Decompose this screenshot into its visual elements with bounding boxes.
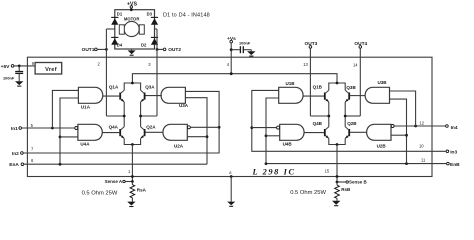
svg-text:15: 15 (325, 168, 330, 173)
wire OUT1 node horizontal (106, 115, 124, 117)
label pin 7 (31, 146, 34, 151)
junction EnB to U4B (265, 134, 268, 137)
svg-text:Q3A: Q3A (145, 85, 155, 90)
terminal In1 (19, 127, 22, 130)
wire OUT3 node horizontal (310, 115, 328, 117)
wire EnA to U2A input (187, 136, 207, 138)
wire +VS to bridge top (130, 8, 132, 10)
wire Sense B tap (337, 181, 346, 183)
label pin 14 (353, 62, 358, 67)
gate U2A bubble (163, 124, 190, 140)
terminal +Vs (230, 40, 233, 43)
note D1 to D4 - IN4148 (163, 12, 210, 18)
junction pin4 on rail (230, 72, 233, 75)
junction OUT4 node (344, 115, 347, 118)
wire In3 riser to U4B bubble (252, 127, 277, 129)
junction In1 riser (51, 127, 54, 130)
svg-text:Q1A: Q1A (109, 85, 119, 90)
label EnA (9, 162, 19, 168)
wire U2B output to Q2B base (350, 131, 367, 133)
junction EnA riser left (59, 163, 62, 166)
junction In3 riser U4B (250, 126, 253, 129)
svg-text:U2A: U2A (174, 144, 184, 149)
diode D2 (151, 37, 158, 44)
terminal In4 (446, 125, 449, 128)
label Q2A (146, 125, 156, 130)
junction +5V cap tap (18, 65, 21, 68)
svg-text:U1B: U1B (286, 81, 296, 86)
ground below RsA (127, 202, 135, 207)
junction EnB riser left (265, 162, 268, 165)
label Q1A (109, 85, 119, 90)
ground below motor bridge (128, 49, 136, 55)
transistor Q4B (325, 127, 329, 139)
svg-text:In4: In4 (451, 125, 458, 131)
wire +5V into box (14, 65, 35, 67)
junction sense B on box edge (336, 175, 339, 178)
svg-text:U4A: U4A (80, 142, 90, 147)
label pin 6 (31, 158, 34, 163)
svg-text:10: 10 (419, 144, 424, 149)
label pin 4 (227, 62, 230, 67)
svg-text:In2: In2 (12, 151, 19, 157)
wire pin 14 riser (359, 48, 361, 116)
junction EnB to U2B (405, 134, 408, 137)
label pin 2 (98, 62, 101, 67)
svg-text:6: 6 (31, 158, 34, 163)
gate U4B bubble (277, 124, 304, 140)
svg-text:D1: D1 (117, 11, 123, 16)
ground at C2 (247, 51, 255, 56)
supply +Vs label (227, 36, 236, 42)
capacitor C2 100nF (240, 46, 243, 53)
diode D3 (151, 17, 158, 24)
wire motor left lead (106, 28, 114, 30)
terminal In2 (21, 152, 24, 155)
wire In2 into box (23, 91, 219, 153)
terminal In3 (446, 150, 449, 153)
junction OUT2 riser (156, 48, 159, 51)
wire U1B output to Q1B base (303, 95, 324, 97)
ground below RsB (332, 201, 340, 206)
junction EnA to U2A (206, 135, 209, 138)
wire In1 riser to U1A (52, 90, 78, 128)
label Sense A (105, 179, 123, 184)
svg-text:D1 to D4 - IN4148: D1 to D4 - IN4148 (163, 12, 210, 18)
svg-text:100nF: 100nF (3, 76, 15, 81)
junction In4 riser (414, 125, 417, 128)
svg-text:RsB: RsB (341, 187, 351, 192)
label pin 11 (421, 158, 426, 163)
resistor RsB (335, 182, 340, 201)
transistor Q4A (120, 127, 124, 139)
label In1 (11, 126, 18, 132)
svg-text:MOTOR: MOTOR (124, 16, 140, 21)
capacitor C1 100nF (15, 72, 23, 74)
label U1A (81, 104, 91, 109)
label RsA (137, 187, 147, 192)
transistor Q1A (120, 90, 124, 102)
terminal Sense B (346, 181, 348, 183)
label pin 5 (31, 123, 34, 128)
terminal EnB (447, 162, 450, 165)
junction hat B (336, 82, 339, 85)
supply +VS label (127, 2, 138, 8)
wire EnA to U4A input (60, 136, 78, 138)
junction EnB riser right (405, 162, 408, 165)
wire In4 riser to U3B (390, 91, 416, 126)
wire Sense A tap (125, 181, 132, 183)
label 0.5 Ohm 25W right (290, 190, 326, 196)
svg-text:Q4A: Q4A (109, 125, 119, 130)
label pin 13 (303, 62, 308, 67)
junction Sense A (131, 180, 134, 183)
label OUT2 (168, 47, 181, 53)
svg-text:13: 13 (303, 62, 308, 67)
wire OUT1 to pin2 riser (97, 48, 106, 50)
junction OUT2 node (139, 115, 142, 118)
terminal +5V (11, 65, 14, 68)
label OUT3 (305, 41, 318, 47)
gate U3A (161, 87, 185, 103)
svg-text:14: 14 (353, 62, 358, 67)
gate U4A bubble (75, 124, 102, 140)
wire Q3A emitter to OUT2 node (140, 102, 142, 116)
wire EnA riser right (185, 98, 207, 165)
label OUT4 (354, 41, 367, 47)
svg-text:In3: In3 (450, 150, 457, 156)
label D3 (147, 11, 153, 16)
wire OUT4 node horizontal (345, 115, 360, 117)
ground at pin 8 (227, 202, 235, 207)
svg-text:Sense B: Sense B (349, 179, 368, 184)
wire Q1A emitter to OUT1 node (123, 102, 125, 116)
label Q2B (347, 121, 357, 126)
wire OUT2 to pin3 riser (157, 48, 163, 50)
wire sense A stem (131, 145, 133, 182)
wire +Vs rail (132, 74, 337, 83)
svg-text:EnA: EnA (9, 162, 19, 168)
junction OUT1 node (123, 115, 126, 118)
wire emitter rail A (124, 138, 140, 144)
svg-text:11: 11 (421, 158, 426, 163)
label U3B (378, 80, 388, 85)
wire U3A output to Q3A base (145, 95, 161, 97)
IC name label L298 (252, 167, 296, 176)
label pin 9 (32, 61, 35, 66)
diode D4 (111, 37, 118, 44)
wire Q2A collector to OUT2 node (140, 116, 142, 127)
wire sense B stem (336, 145, 338, 183)
wire In3 into box (252, 90, 446, 151)
wire Q4B collector to OUT3 node (328, 116, 330, 127)
label pin 3 (148, 62, 151, 67)
wire Q3B emitter to OUT4 node (344, 102, 346, 116)
wire In4 into box (394, 125, 446, 127)
svg-text:4: 4 (227, 62, 230, 67)
svg-text:Q2B: Q2B (347, 121, 357, 126)
junction EnA to U4A (59, 136, 62, 139)
svg-text:0.5 Ohm 25W: 0.5 Ohm 25W (82, 190, 118, 196)
motor M circle (124, 21, 139, 36)
svg-text:D2: D2 (141, 42, 147, 47)
junction OUT3 node (327, 115, 330, 118)
gate U3B (365, 87, 389, 103)
wire Q2B collector to OUT4 node (344, 116, 346, 127)
supply +VS terminal (130, 6, 132, 8)
svg-text:Q4B: Q4B (313, 121, 323, 126)
wire EnB to U2B input (391, 134, 407, 136)
wire EnA riser left (60, 98, 78, 164)
wire motor right lead (155, 28, 158, 30)
svg-text:OUT2: OUT2 (168, 47, 181, 53)
label RsB (341, 187, 351, 192)
wire EnB into box (266, 163, 447, 165)
terminal OUT1 (95, 48, 98, 51)
svg-text:0.5 Ohm 25W: 0.5 Ohm 25W (290, 190, 326, 196)
gate U2B bubble (367, 124, 394, 140)
svg-text:OUT1: OUT1 (82, 47, 95, 53)
svg-text:D4: D4 (117, 42, 123, 47)
svg-text:D3: D3 (147, 11, 153, 16)
wire pin 2 riser (105, 29, 107, 116)
svg-text:5: 5 (31, 123, 34, 128)
svg-text:Sense A: Sense A (105, 179, 123, 184)
svg-text:Vref: Vref (45, 67, 57, 73)
wire pin 4 +Vs (230, 43, 232, 74)
motor terminal block right (139, 25, 144, 34)
svg-text:7: 7 (31, 146, 34, 151)
terminal OUT3 (309, 46, 312, 49)
wire pin 3 riser (156, 29, 158, 116)
svg-text:1: 1 (128, 169, 131, 174)
junction hat A (131, 82, 134, 85)
label D1 (117, 11, 123, 16)
junction sense A on box edge (131, 175, 134, 178)
wire +5V to capacitor C1 (18, 66, 20, 71)
junction emitter rail B (336, 143, 339, 146)
svg-text:U3A: U3A (179, 103, 189, 108)
wire to capacitor C2 (231, 49, 240, 51)
transistor Q1B (325, 90, 329, 102)
wire U1A output to Q1A base (103, 95, 120, 97)
diode D1 (111, 17, 118, 24)
label Q1B (313, 84, 323, 89)
wire C2 to ground (244, 50, 251, 52)
svg-text:U3B: U3B (378, 80, 388, 85)
label Vref (45, 67, 57, 73)
label Q3B (346, 85, 356, 90)
ground at C1 (15, 81, 23, 86)
transistor Q2A (141, 127, 145, 139)
label Q4B (313, 121, 323, 126)
terminal OUT2 (163, 48, 166, 51)
label U3A (179, 103, 189, 108)
label U4B (283, 142, 293, 147)
wire emitter rail B (329, 138, 345, 144)
svg-text:U2B: U2B (377, 143, 387, 148)
gate U1A (78, 87, 102, 103)
svg-text:Q1B: Q1B (313, 84, 323, 89)
svg-text:+5V: +5V (1, 64, 11, 70)
label In3 (450, 150, 457, 156)
svg-text:EnB: EnB (450, 162, 460, 168)
junction GND pin 8 (230, 175, 233, 178)
gate U1B (279, 87, 303, 103)
label pin 10 (419, 144, 424, 149)
wire EnA into box (24, 163, 207, 165)
wire EnB riser right (390, 99, 407, 164)
label Q3A (145, 85, 155, 90)
label D4 (117, 42, 123, 47)
label pin 8 (229, 170, 232, 175)
wire pin 13 riser (309, 48, 311, 116)
label pin 12 (420, 121, 425, 126)
label U2A (174, 144, 184, 149)
IC L298 package outline box (27, 57, 432, 176)
wire collector hat A (124, 83, 140, 90)
svg-text:3: 3 (148, 62, 151, 67)
terminal EnA (21, 163, 24, 166)
label Q4A (109, 125, 119, 130)
label pin 1 (128, 169, 131, 174)
label pin 15 (325, 168, 330, 173)
wire In2 riser to U2A bubble (190, 126, 219, 128)
svg-text:2: 2 (98, 62, 101, 67)
wire U4B output to Q4B base (304, 132, 324, 134)
wire EnB riser left (266, 98, 279, 164)
svg-text:Q3B: Q3B (346, 85, 356, 90)
label 100nF left (3, 76, 15, 81)
svg-text:L 298 IC: L 298 IC (252, 167, 296, 176)
label +5V (1, 64, 11, 70)
svg-text:In1: In1 (11, 126, 18, 132)
wire C1 to ground (18, 74, 20, 81)
junction OUT1 riser (105, 48, 108, 51)
label In2 (12, 151, 19, 157)
svg-text:Q2A: Q2A (146, 125, 156, 130)
label Sense B (349, 179, 368, 184)
junction Sense B (336, 181, 339, 184)
wire U3B output to Q3B base (350, 95, 365, 97)
label 100nF top (239, 41, 251, 46)
svg-text:U4B: U4B (283, 142, 293, 147)
resistor RsA (130, 182, 135, 202)
block Vref (35, 63, 62, 75)
motor terminal block left (119, 25, 124, 34)
wire In1 into box (22, 127, 75, 129)
transistor Q2B (345, 127, 349, 139)
wire OUT2 node horizontal (141, 115, 157, 117)
junction In2 riser U2A (218, 126, 221, 129)
label U2B (377, 143, 387, 148)
label U1B (286, 81, 296, 86)
svg-text:8: 8 (229, 170, 232, 175)
label 0.5 Ohm 25W left (82, 190, 118, 196)
junction emitter rail A (131, 143, 134, 146)
terminal OUT4 (359, 46, 362, 49)
wire U4A output to Q4A base (102, 132, 119, 134)
label D2 (141, 42, 147, 47)
svg-text:12: 12 (420, 121, 425, 126)
label In4 (451, 125, 458, 131)
motor bridge outline box (115, 10, 155, 49)
wire U2A output to Q2A base (145, 131, 163, 133)
label U4A (80, 142, 90, 147)
label EnB (450, 162, 460, 168)
svg-text:RsA: RsA (137, 187, 147, 192)
terminal Sense A (123, 180, 125, 182)
junction +VS on bridge top (130, 8, 133, 11)
wire EnB to U4B input (266, 135, 280, 137)
label MOTOR (124, 16, 140, 21)
wire Q1B emitter to OUT3 node (328, 102, 330, 116)
transistor Q3B (345, 90, 349, 102)
transistor Q3A (141, 90, 145, 102)
svg-text:9: 9 (32, 61, 35, 66)
svg-text:100nF: 100nF (239, 41, 251, 46)
wire collector hat B (329, 83, 345, 90)
junction +Vs cap tap (230, 48, 233, 51)
wire Q4A collector to OUT1 node (123, 116, 125, 127)
label OUT1 (82, 47, 95, 53)
wire GND pin 8 stem (230, 177, 232, 202)
svg-text:U1A: U1A (81, 104, 91, 109)
